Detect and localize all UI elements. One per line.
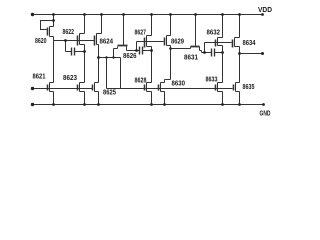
svg-text:8635: 8635 bbox=[243, 82, 255, 91]
capacitor C1 bbox=[66, 48, 85, 56]
transistor 8628 bbox=[145, 83, 152, 105]
junction 8620 gate-drain bbox=[52, 19, 55, 22]
junction GND-8628 bbox=[150, 103, 153, 106]
svg-text:8623: 8623 bbox=[63, 73, 77, 82]
transistor 8631 bbox=[191, 15, 205, 53]
transistor 8624 bbox=[95, 15, 102, 83]
node C line (y=41 gate node of 8627/8629) bbox=[137, 41, 164, 43]
junction GND-8634 bbox=[238, 103, 241, 106]
junction output / 8634 source bbox=[238, 52, 241, 55]
junction VDD-8622 bbox=[83, 13, 86, 16]
bias bus 2 (y=88 to 8633 gate) bbox=[107, 88, 233, 90]
junction VDD-8629 bbox=[169, 13, 172, 16]
node B wiring (8624 source node) bbox=[99, 49, 121, 89]
junction node B / 8626 gate bbox=[112, 56, 114, 58]
junction VDD-8627 bbox=[150, 13, 153, 16]
junction node B / bias drop bbox=[105, 56, 107, 58]
transistor 8621 bbox=[48, 83, 54, 105]
junction VDD-8632 bbox=[221, 13, 224, 16]
svg-text:8620: 8620 bbox=[35, 36, 47, 45]
svg-text:8632: 8632 bbox=[207, 27, 221, 36]
wire (node C riser) bbox=[136, 42, 138, 51]
junction node A / C1 bbox=[64, 39, 67, 42]
node GND terminal bbox=[31, 103, 34, 106]
junction GND-8625 bbox=[97, 103, 100, 106]
transistor 8633 bbox=[216, 83, 223, 105]
junction node E / C3 bbox=[203, 51, 206, 54]
svg-text:8624: 8624 bbox=[100, 36, 114, 45]
junction GND-8633 bbox=[221, 103, 224, 106]
VDD rail bbox=[33, 14, 263, 16]
junction VDD-8626 bbox=[122, 13, 125, 16]
node A line (mirror gate node, y=40) bbox=[54, 40, 95, 42]
transistor 8627 bbox=[145, 15, 152, 83]
transistor 8634 bbox=[233, 15, 240, 83]
node VDD end bbox=[261, 13, 264, 16]
wire (node E riser) bbox=[204, 43, 206, 53]
transistor 8630 bbox=[159, 83, 165, 105]
svg-text:8631: 8631 bbox=[184, 52, 198, 61]
node GND end bbox=[262, 103, 265, 106]
svg-text:8625: 8625 bbox=[103, 88, 116, 97]
junction VDD-8631 bbox=[194, 13, 197, 16]
wire (node A drop to C1) bbox=[65, 41, 67, 52]
node bias input terminal bbox=[31, 87, 34, 90]
junction GND-8630 bbox=[163, 103, 166, 106]
junction C2 / 8627 source bbox=[150, 49, 153, 52]
transistor 8623 bbox=[78, 83, 85, 105]
svg-text:8628: 8628 bbox=[135, 75, 147, 84]
junction VDD-8620 bbox=[52, 13, 55, 16]
junction 8629 source / 8631 feed bbox=[169, 47, 172, 50]
bias bus (input gate line, y=88) bbox=[33, 88, 93, 90]
svg-text:8629: 8629 bbox=[171, 36, 184, 45]
junction node C / C2 bbox=[135, 49, 138, 52]
junction VDD-8634 bbox=[238, 13, 241, 16]
junction C3 / 8632 source bbox=[221, 51, 224, 54]
junction GND-8621 bbox=[52, 103, 55, 106]
svg-text:8634: 8634 bbox=[243, 38, 257, 47]
node VDD terminal bbox=[31, 13, 34, 16]
transistor 8629 bbox=[165, 15, 171, 83]
wire (8620/8621 trunk down) bbox=[53, 41, 55, 83]
svg-text:8630: 8630 bbox=[172, 78, 186, 87]
svg-text:GND: GND bbox=[260, 108, 271, 117]
node output terminal bbox=[261, 52, 264, 55]
junction GND-8623 bbox=[83, 103, 86, 106]
svg-text:8621: 8621 bbox=[33, 71, 46, 80]
transistor 8626 bbox=[114, 15, 137, 51]
svg-text:VDD: VDD bbox=[258, 5, 273, 14]
node D line (8629 source to 8631 gate) bbox=[171, 48, 191, 50]
transistor 8635 bbox=[234, 83, 240, 105]
transistor 8622 bbox=[78, 15, 85, 83]
node E line (y=42.5 gate node of 8632/8634) bbox=[205, 42, 232, 44]
junction VDD-8624 bbox=[100, 13, 103, 16]
svg-text:8633: 8633 bbox=[206, 74, 218, 83]
transistor 8620 bbox=[41, 15, 54, 41]
GND rail bbox=[33, 104, 264, 106]
capacitor C2 bbox=[137, 47, 152, 55]
transistor 8625 bbox=[93, 83, 99, 105]
svg-text:8626: 8626 bbox=[123, 51, 137, 60]
transistor 8632 bbox=[216, 15, 223, 83]
junction node B bbox=[97, 56, 100, 59]
svg-text:8627: 8627 bbox=[135, 27, 147, 36]
output wire bbox=[240, 53, 263, 55]
junction C1 / 8622 source bbox=[83, 50, 86, 53]
capacitor C3 bbox=[205, 49, 223, 57]
svg-text:8622: 8622 bbox=[63, 27, 75, 36]
